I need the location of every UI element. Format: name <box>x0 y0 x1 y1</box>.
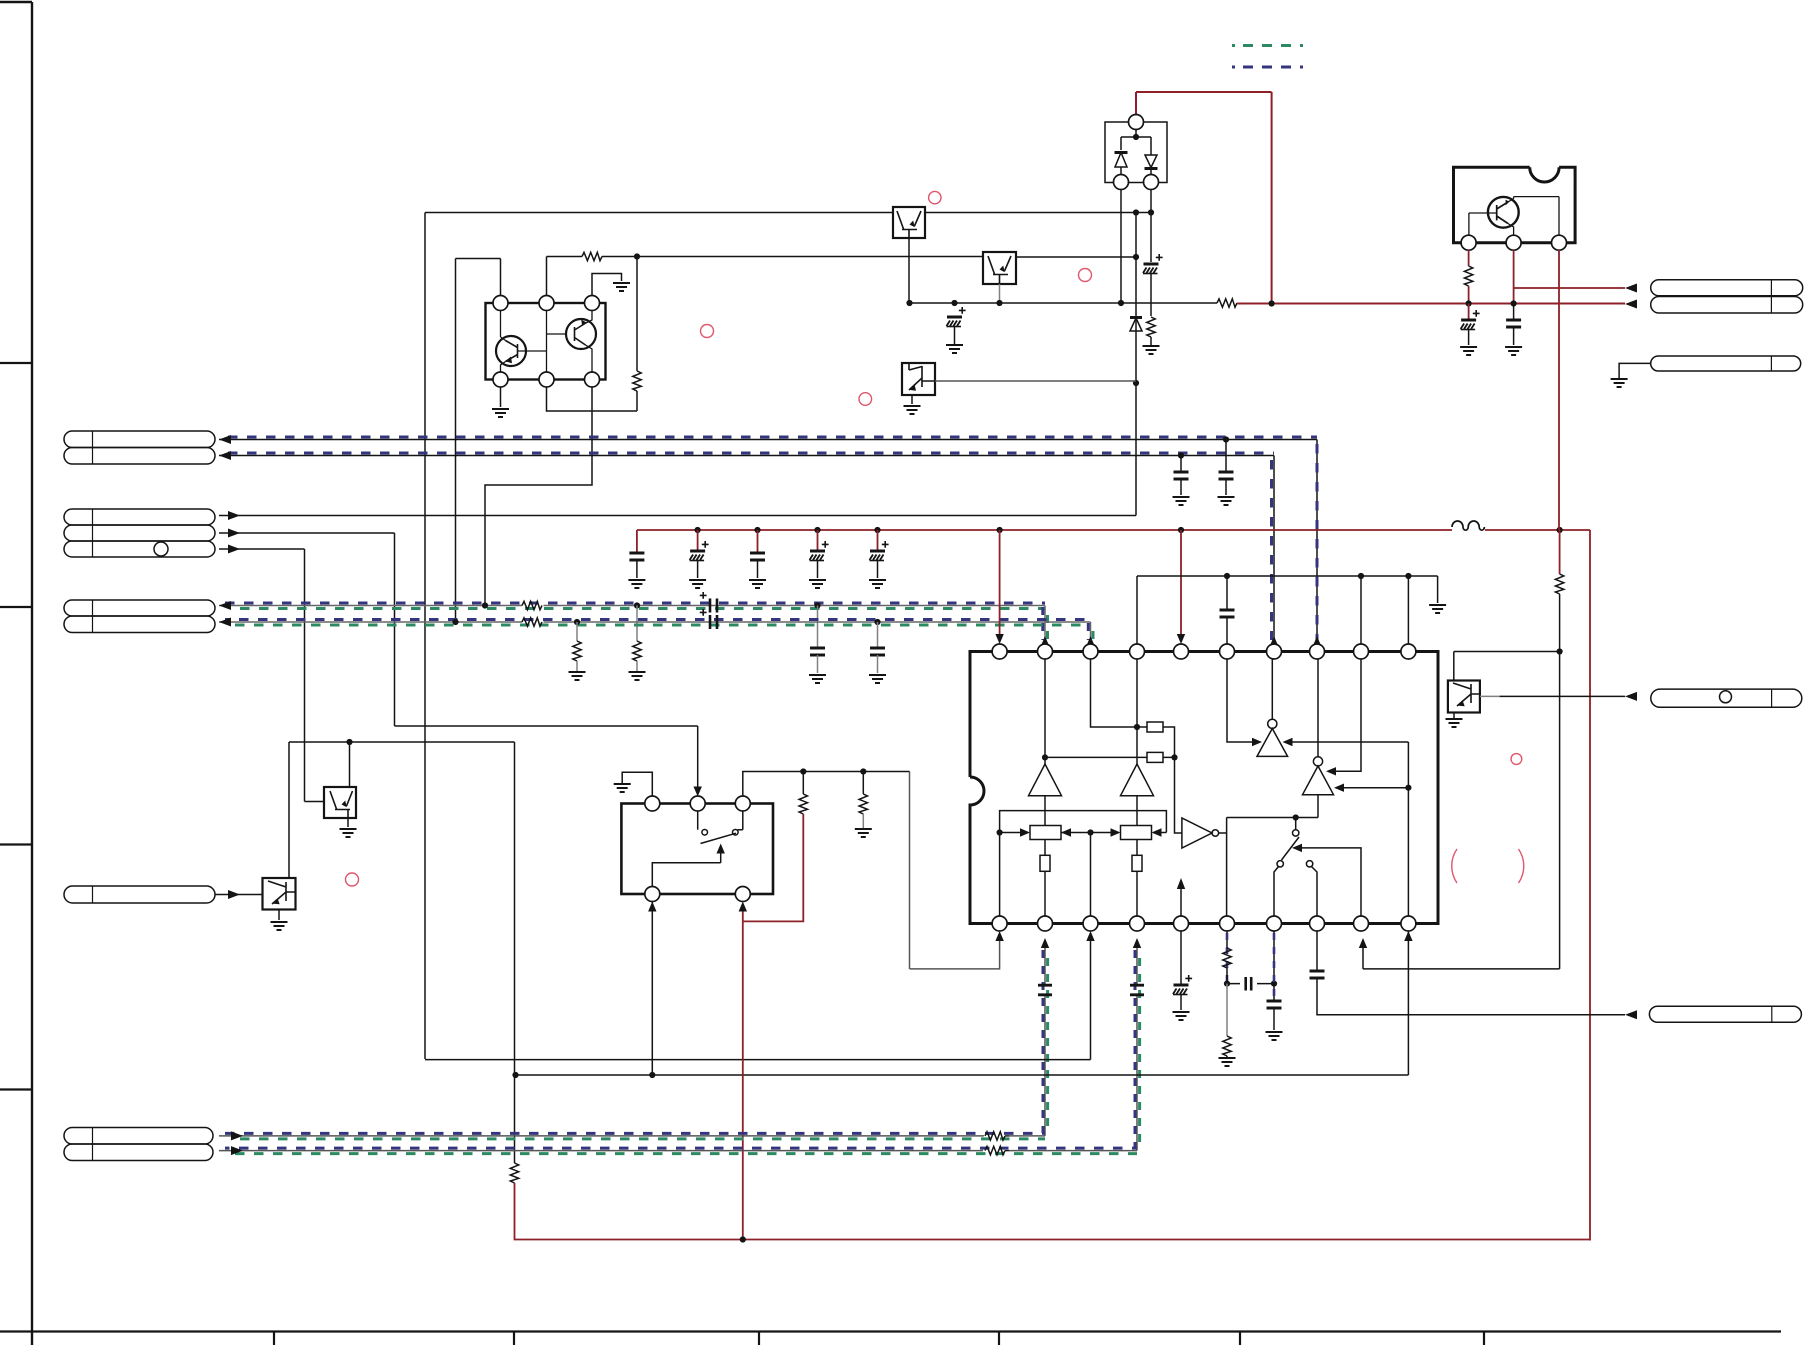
inductor L1 <box>1452 521 1484 530</box>
wire pin9 to A3 upper input <box>1336 659 1361 772</box>
cable B1 vertical to pin2 <box>1044 606 1046 645</box>
resistor R3 in cable B1 <box>522 601 542 609</box>
wire PB2 to small resistor box <box>1136 840 1138 856</box>
wire x=1181 drop <box>1180 456 1182 473</box>
wire pin2 internal riser <box>546 334 548 372</box>
wire y=968.9 to pin9b <box>1363 947 1560 969</box>
border bottom tick 1 <box>273 1332 275 1346</box>
wire relay internal to pin4 <box>652 863 720 887</box>
trim resistor box RB1 <box>1040 855 1050 871</box>
node cable B1 x=637 <box>634 602 640 608</box>
IC U1 top pin 4 <box>1130 644 1145 659</box>
cable C2 arrowhead <box>231 1146 243 1155</box>
ground below C11 <box>809 675 826 683</box>
transistor QA box <box>893 207 925 238</box>
switch SW1 top contact <box>1293 830 1299 836</box>
node at 1227,983.6 <box>1224 981 1230 987</box>
transistor Q5 glyph <box>268 881 296 904</box>
transistor QB glyph <box>988 256 1011 284</box>
ground below C14 <box>1460 347 1477 355</box>
connector pill RP4 circle <box>1720 691 1732 703</box>
wire horizontal 212.5 left <box>425 212 893 214</box>
ground at 1437.6,605 <box>1429 605 1446 613</box>
capacitor C16 (x=1227) <box>1220 610 1235 617</box>
IC U1 top pin 10 <box>1401 644 1416 659</box>
connector pill P2c circle <box>154 542 168 556</box>
wire pin7b down <box>1273 931 1275 1001</box>
ground at 622.2,784 <box>614 784 631 792</box>
wire R10 bottom to node 651.5 <box>1559 594 1561 652</box>
diode package D1 bottom pin left <box>1114 175 1129 190</box>
relay top pin 3 <box>735 796 750 811</box>
node at 1121,303 <box>1118 300 1124 306</box>
resistor R9 vertical x=1468.6 <box>1464 266 1472 286</box>
capacitor C19 polar (x=1181) <box>1173 985 1189 995</box>
resistor R14 vertical x=863.3 <box>862 772 864 795</box>
resistor R17 in cable C2 <box>985 1146 1005 1154</box>
wire relay pin4 bottom drop <box>651 901 653 1075</box>
wire red bus corner to C1 <box>636 530 638 553</box>
wire vertical x=1136 center drop <box>1135 213 1137 516</box>
ground below C21 <box>1266 1032 1283 1040</box>
IC U1 top pin 8 <box>1310 644 1325 659</box>
cable C2 navy dashes <box>225 1147 1137 1150</box>
node cable B2 x=455.5 <box>452 619 458 625</box>
wire D1 internal top <box>1121 129 1151 150</box>
wire red R15 to bottom loop <box>515 1183 1591 1240</box>
arrow up into relay pin5 <box>739 902 747 912</box>
wire pin3b riser <box>1090 833 1092 917</box>
capacitor C22 (x=1317) <box>1310 971 1325 978</box>
relay internal contact stub pin3 <box>738 811 743 830</box>
node at 803.3,771.5 <box>800 768 806 774</box>
wire bus to C2 <box>697 530 699 551</box>
diode package D1 top pin <box>1129 115 1144 130</box>
ground below RP3 lead <box>1611 379 1628 387</box>
wire node to A3 lower input <box>1344 787 1408 789</box>
node at 1361,576 <box>1358 573 1364 579</box>
border bottom tick 2 <box>513 1332 515 1346</box>
wire QC output y=381 <box>935 380 1136 382</box>
series capacitor C20 horizontal <box>1227 983 1274 985</box>
arrow trio3 <box>228 545 240 554</box>
resistor R10 vertical x=1559.6 <box>1559 530 1561 574</box>
node bus x=817.5 <box>814 527 820 533</box>
wire Q3 collector lead <box>1508 197 1559 236</box>
arrow into PB1 left <box>1020 828 1030 836</box>
ground below pkg pin1 <box>492 409 509 417</box>
wire RP3 to ground <box>1619 363 1651 378</box>
wire Q3 base lead <box>1469 213 1497 236</box>
wire to ground x=1437.6 <box>1437 576 1439 603</box>
inverter A4 triangle <box>1182 818 1212 848</box>
package top pin 2 <box>539 296 554 311</box>
node at 1408.4,787.7 <box>1405 785 1411 791</box>
wire QB emitter stub gray <box>999 284 1001 303</box>
arrow down into IC pin1 <box>995 634 1003 644</box>
wire A5 output to pin7 <box>1271 659 1273 720</box>
node bus x=877.5 <box>874 527 880 533</box>
wire PB1 to small resistor box <box>1044 840 1046 856</box>
cable B2 green dashes <box>231 624 1091 627</box>
trim box U1-B2 <box>1147 752 1163 762</box>
wire QC emitter to ground <box>911 395 913 404</box>
border bottom tick 3 <box>758 1332 760 1346</box>
border bottom tick 6 <box>1483 1332 1485 1346</box>
connector pill P2b <box>64 525 215 541</box>
capacitor C7 polar (x=1151) <box>1143 264 1159 274</box>
diode package D1 bottom pin right <box>1144 175 1159 190</box>
cable A2 arrowhead <box>219 451 231 460</box>
border bottom tick 5 <box>1239 1332 1241 1346</box>
wire y=742 horizontal <box>289 741 515 743</box>
wire y=303 bus <box>910 302 1218 304</box>
IC U1 bottom pin 7 <box>1267 916 1282 931</box>
NOT gate A5 triangle (points up) <box>1257 729 1288 757</box>
cable B1 navy dashes <box>225 602 1045 605</box>
IC U1 bottom pin 10 <box>1401 916 1416 931</box>
wire pkg pin2 bottom L <box>547 387 638 411</box>
arrowhead into wire from RP5 <box>1625 1010 1637 1019</box>
transistor QB box <box>983 252 1016 284</box>
IC U1 top pin 2 <box>1038 644 1053 659</box>
IC U1 bottom pin 9 <box>1354 916 1369 931</box>
IC U1 bottom pin 3 <box>1083 916 1098 931</box>
wire pin9b to blade arrow <box>1302 848 1361 916</box>
inverter A4 bubble <box>1212 830 1219 837</box>
wire x=577 drop gray <box>576 622 578 641</box>
resistor R12 vertical x=1227 <box>1223 1036 1231 1056</box>
ground below C2 <box>689 580 706 588</box>
wire pin8b down to cap <box>1316 931 1318 971</box>
wire node to SW1 <box>1295 818 1297 830</box>
connector pill P1b <box>64 448 215 465</box>
trim box U1-B1 <box>1147 722 1163 732</box>
package Q3 outline with notch <box>1454 167 1576 242</box>
node at 1408.4,576 <box>1405 573 1411 579</box>
transistor QA glyph <box>897 211 921 238</box>
transistor Q3 glyph <box>1497 202 1508 224</box>
legend navy dashed sample <box>1232 66 1303 69</box>
wire trio3 <box>219 549 324 802</box>
arrow into A5 right <box>1283 738 1293 746</box>
wire pkg pin3 to ground <box>592 274 622 297</box>
node at 742.8,1239.5 <box>740 1236 746 1242</box>
wire pin10b riser <box>1407 742 1409 916</box>
wire C19 to ground <box>1180 995 1182 1010</box>
arrowhead into pill RP1 <box>1625 284 1637 293</box>
capacitor C14 polar (x=1468.6) <box>1468 304 1470 321</box>
cable C2 core <box>219 1150 1137 1152</box>
package bottom pin 1 <box>493 372 508 387</box>
resistor R15 vertical x=514.5 <box>510 1163 518 1183</box>
package top pin 3 <box>585 296 600 311</box>
wire red drop to IC pin1 <box>999 530 1001 640</box>
resistor R7 horizontal (y=303) <box>1217 299 1237 307</box>
arrow into A5 left <box>1252 738 1262 746</box>
resistor R4 in cable B2 <box>522 618 542 626</box>
relay internal contact stub pin2 <box>697 811 699 830</box>
node at 999.6,832.5 <box>997 829 1003 835</box>
wire C13 to ground <box>877 655 879 673</box>
wire C21 to ground <box>1273 1008 1275 1030</box>
arrow up into relay pin4 <box>648 902 656 912</box>
diode D1b (cathode down) <box>1145 150 1157 175</box>
wire node down gray to R12 <box>1226 984 1228 1036</box>
wire RB1 to pin2b <box>1044 871 1046 916</box>
IC U1 bottom pin 8 <box>1310 916 1325 931</box>
ground below C9 <box>1218 497 1235 505</box>
wire amp2 base down <box>1136 796 1138 826</box>
cable A1 core <box>219 439 1317 441</box>
series capacitor C17 in pin2b cable <box>1038 985 1052 995</box>
wire y=817.5 to amp3 base <box>1227 817 1318 819</box>
cable C1 green dashes <box>231 1137 1046 1140</box>
capacitor C4 polar <box>810 551 826 561</box>
resistor R16 in cable C1 <box>983 1135 984 1137</box>
amplifier A2 triangle <box>1121 764 1154 796</box>
capacitor C3 <box>750 553 765 560</box>
NOT gate A5 bubble <box>1268 719 1277 728</box>
transistor Q6 box <box>1448 681 1480 713</box>
ground below C6 <box>946 345 963 353</box>
wire Q6 emitter to ground <box>1453 713 1455 719</box>
wire Q1 connections <box>501 310 547 372</box>
arrow into relay pin2 <box>694 787 702 797</box>
pot box PB1 <box>1030 826 1061 840</box>
IC U1 top pin 7 <box>1267 644 1282 659</box>
resistor R11 vertical x=1227 <box>1223 948 1231 968</box>
cable A2 vertical to pin7 <box>1273 456 1275 645</box>
relay switch blade <box>701 833 737 843</box>
cable A1 navy dashes <box>228 436 1317 439</box>
node at 1274,983.6 <box>1271 981 1277 987</box>
wire node to PB1 left arrow <box>1000 832 1022 834</box>
wire y=576 horizontal <box>1137 575 1438 577</box>
wire C2 to ground <box>697 561 699 578</box>
connector pill RP1 <box>1651 280 1803 296</box>
wire red drop to IC pin5 <box>1180 530 1182 640</box>
transistor Q4 box <box>324 787 356 818</box>
wire pkg pin3 bottom chain <box>485 387 592 606</box>
transistor QC glyph <box>909 363 935 390</box>
wire red bus y=530 <box>637 529 1590 531</box>
annotation circle a4 <box>859 393 872 406</box>
transistor QC box <box>902 363 935 395</box>
cable B1 arrowhead <box>219 601 231 610</box>
wire Q4 emitter to ground <box>347 818 349 827</box>
node at 1468.6,303.5 <box>1466 300 1472 306</box>
IC U1 top pin 9 <box>1354 644 1369 659</box>
wire pin5b stub arrow <box>1180 888 1182 916</box>
resistor R5 vertical x=637 <box>633 641 641 661</box>
cable C2v from pin4b down <box>1136 947 1138 1151</box>
ground below C4 <box>809 580 826 588</box>
arrow into A3 upper right <box>1326 767 1336 775</box>
wire pin1b down-left <box>910 772 1000 969</box>
ground below C15 <box>1505 347 1522 355</box>
ground below C13 <box>869 675 886 683</box>
wire pkg pin2 riser <box>546 257 548 297</box>
annotation circle a2 <box>701 325 714 338</box>
arrow up into IC pin7 <box>1270 636 1278 646</box>
cable B2 arrowhead <box>219 618 231 627</box>
cable C2 green dashes <box>231 1152 1138 1155</box>
capacitor C8 (x=1181) <box>1174 472 1189 479</box>
annotation circle a1 <box>929 191 941 203</box>
diode D1a (cathode up) <box>1115 151 1128 154</box>
IC U1 bottom pin 5 <box>1174 916 1189 931</box>
wire box1 loop <box>1091 659 1175 758</box>
arrow trio2 <box>228 529 240 538</box>
capacitor C21 (x=1274) <box>1267 1001 1282 1008</box>
node at 1513.6,303.5 <box>1511 300 1517 306</box>
wire amp3 base down <box>1317 795 1319 818</box>
border left tick 4 <box>0 1088 32 1090</box>
wire trio2 <box>219 533 698 788</box>
ground at 621.5,283 <box>613 283 630 291</box>
package Q3 pin 3 <box>1552 235 1567 250</box>
package bottom pin 2 <box>539 372 554 387</box>
relay top pin 2 <box>690 796 705 811</box>
border left tick 2 <box>0 606 32 608</box>
cable C1v from pin2b down <box>1044 947 1046 1136</box>
IC U1 bottom pin 2 <box>1038 916 1053 931</box>
wire C9 to ground <box>1225 479 1227 495</box>
wire RB2 to pin4b <box>1136 871 1138 916</box>
wire bus to C4 <box>817 530 819 551</box>
arrow up into pin2b <box>1041 938 1049 948</box>
ground below Q6 <box>1446 719 1463 727</box>
wire R14 to ground <box>862 814 864 828</box>
relay blade arrow stem <box>720 852 722 863</box>
package bottom pin 3 <box>585 372 600 387</box>
wire red top horizontal <box>1136 91 1272 93</box>
ground below C3 <box>749 580 766 588</box>
cable C1 navy dashes <box>225 1132 1045 1135</box>
wire Q6 output to pill RP4 <box>1480 695 1500 697</box>
node at 1271.6,303.5 <box>1269 300 1275 306</box>
node cable A2 x=1181 <box>1178 452 1184 458</box>
node at 652.3,1075 <box>649 1072 655 1078</box>
wire C4 to ground <box>817 561 819 578</box>
wire Q3 pin2 red down and right to pill <box>1514 250 1625 304</box>
connector pill P5a <box>64 1128 213 1145</box>
wire SW1 left contact to pin7b <box>1274 867 1279 917</box>
ground below R14 <box>855 829 872 837</box>
border left tick 3 <box>0 843 32 845</box>
arrow into PB1 right <box>1061 828 1071 836</box>
switch SW1 left contact <box>1277 861 1283 867</box>
cable B2 vertical to pin3 <box>1090 622 1092 644</box>
cable A1 arrowhead <box>219 435 231 444</box>
arrow into PB2 right <box>1152 828 1162 836</box>
node at 999.5,303 <box>996 300 1002 306</box>
cable A2 navy dashes <box>228 452 1274 455</box>
wire x=817.5 drop gray <box>817 606 819 649</box>
wire red vertical to diode package <box>1135 92 1137 115</box>
border left vertical <box>31 2 33 1345</box>
wire C14 to ground <box>1468 330 1470 345</box>
wire between pot boxes <box>1061 832 1112 834</box>
wire relay pin3 up right <box>743 772 910 797</box>
IC U1 outline with left notch <box>970 652 1438 924</box>
transistor Q1 circle <box>496 336 526 366</box>
IC U1 top pin 5 <box>1174 644 1189 659</box>
node bus x=757.5 <box>754 527 760 533</box>
series capacitor C18 in pin4b cable <box>1130 985 1144 995</box>
wire y=1075 long <box>516 1074 1409 1076</box>
wire pin6 to A5 left input <box>1227 659 1252 742</box>
cable B1 core <box>219 605 1045 607</box>
ground below C5 <box>869 580 886 588</box>
transistor Q1 glyph <box>506 341 518 362</box>
wire horizontal 212.5 right <box>925 212 1151 214</box>
relay bottom pin 4 <box>645 887 660 902</box>
connector pill P4 <box>64 886 215 903</box>
IC U1 bottom pin 1 <box>992 916 1007 931</box>
wire C1 to ground <box>636 560 638 578</box>
arrow up into pin3b <box>1086 931 1094 941</box>
wire x=637 drop gray <box>636 606 638 642</box>
wire IC-top-right to transistor Q6 <box>1454 652 1560 681</box>
resistor R1 horizontal <box>582 252 602 260</box>
wire x=1559.6 drop below <box>1559 652 1561 969</box>
wire Q5 emitter to ground <box>278 910 280 921</box>
node at 1090.5,832.5 <box>1087 829 1093 835</box>
cable C1 arrowhead <box>231 1131 243 1140</box>
ground below C8 <box>1173 497 1190 505</box>
wire y=257 from package <box>547 256 984 258</box>
ground below Q5 <box>271 922 288 930</box>
wire vertical x=455.5 <box>455 259 457 623</box>
package Q3 pin 2 <box>1506 235 1521 250</box>
connector pill P1a <box>64 431 215 448</box>
wire R5 to ground <box>636 661 638 671</box>
wire red corner down x=1590 <box>1589 530 1591 1241</box>
switch SW1 right contact <box>1306 861 1312 867</box>
relay internal contact circle left <box>702 830 708 836</box>
arrow at blade from pin9b <box>1292 844 1302 852</box>
arrow up into IC pin8 <box>1313 636 1321 646</box>
border bottom tick 4 <box>998 1332 1000 1346</box>
capacitor C5 polar <box>870 551 886 561</box>
ground below R8 <box>569 672 586 680</box>
annotation paren left <box>1452 849 1457 883</box>
package Q1Q2 outline <box>486 303 606 380</box>
package Q3 pin 1 <box>1461 235 1476 250</box>
wire pin6b down to resistor <box>1226 931 1228 948</box>
wire D1 pinR drop <box>1150 189 1152 262</box>
wire C16 to IC pin6 <box>1226 617 1228 644</box>
resistor R13 vertical x=803.3 <box>802 772 804 795</box>
series capacitor C10 in cable B1 <box>710 599 717 613</box>
wire A4 output to pin6b <box>1219 818 1227 917</box>
series capacitor C12 in cable B2 <box>710 615 717 629</box>
IC U1 bottom pin 6 <box>1220 916 1235 931</box>
wire red relay pin5 down <box>742 921 744 1239</box>
annotation circle a3 <box>1079 269 1092 282</box>
ground below Q4 <box>340 829 357 837</box>
wire trio1 y=515.5 <box>219 515 1136 517</box>
wire y=757.4 to box2 <box>1045 756 1175 758</box>
capacitor C2 polar <box>690 551 706 561</box>
cable B1 green dashes <box>231 607 1046 610</box>
wire from x455 riser to pkg pin1 <box>456 259 501 297</box>
node at 863.3,771.5 <box>860 768 866 774</box>
wire C5 to ground <box>877 561 879 578</box>
node at 637,256.5 <box>634 253 640 259</box>
